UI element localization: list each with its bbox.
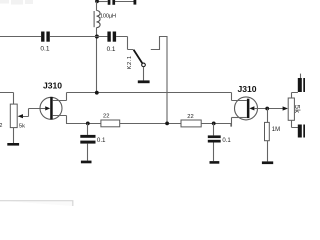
wire wiper to gate: [23, 109, 45, 117]
ground under switch: [138, 80, 150, 83]
svg-text:K2.1: K2.1: [127, 55, 133, 69]
capacitor C1 0.1: [41, 32, 50, 42]
wire left rail y36: [0, 36, 41, 38]
svg-text:2: 2: [0, 123, 3, 129]
capacitor top (cut off at edge): [108, 0, 115, 5]
capacitor right top (cut off): [298, 78, 305, 92]
svg-text:100µH: 100µH: [100, 13, 116, 19]
svg-text:0.1: 0.1: [107, 46, 116, 53]
potentiometer P2 5k body: [288, 98, 294, 120]
wire switch to ground: [143, 67, 145, 81]
resistor R3 1M: [267, 109, 269, 123]
svg-text:0.1: 0.1: [97, 137, 106, 144]
wire top rail left: [97, 1, 108, 3]
potentiometer P2 5k wiper arrow: [283, 106, 288, 110]
wire P2 bottom to cap: [292, 120, 298, 127]
potentiometer P1 5k body: [10, 104, 17, 128]
node drain rail / LC junction: [95, 91, 99, 95]
capacitor C2 0.1: [107, 32, 116, 42]
wire source rail segment 2: [120, 123, 181, 125]
wire from top rail down to inductor: [96, 2, 98, 11]
transistor Q2 J310: [232, 93, 258, 120]
wire C4 to ground: [213, 143, 215, 162]
switch K2.1 blade: [134, 50, 143, 64]
ground under C3: [81, 161, 92, 164]
svg-text:J310: J310: [43, 81, 62, 91]
wire C3 to ground: [87, 144, 89, 161]
wire switch fixed contact to source rail: [151, 37, 167, 124]
node gate / 1M: [265, 107, 269, 111]
node junction L / caps row: [95, 35, 99, 39]
node source rail / C3: [86, 122, 90, 126]
wire P2 top to cap: [292, 93, 298, 99]
wire stub above right cap: [300, 74, 302, 78]
svg-text:5k: 5k: [19, 123, 25, 129]
wire 1M to ground: [267, 141, 269, 162]
wire pot bottom to ground: [13, 128, 15, 143]
resistor R1 22: [101, 120, 120, 127]
wire top rail right: [115, 1, 134, 3]
ground under pot P1: [7, 143, 19, 146]
svg-text:J310: J310: [237, 84, 256, 94]
node top junction: [95, 0, 99, 3]
transistor Q1 J310: [40, 93, 67, 124]
capacitor C4 0.1 bypass: [213, 124, 215, 136]
switch K2.1 contact circle: [142, 63, 146, 67]
svg-text:0.1: 0.1: [40, 45, 49, 52]
svg-text:22: 22: [103, 114, 109, 120]
capacitor right bottom (cut off): [298, 125, 305, 138]
capacitor plate top-right (cut off): [134, 0, 137, 5]
inductor L1 100µH: [97, 11, 101, 28]
svg-text:1M: 1M: [272, 127, 280, 133]
ground under C4: [210, 161, 220, 164]
resistor R2 22: [181, 120, 201, 127]
potentiometer P1 wiper arrow: [18, 114, 23, 118]
status box bottom-left: [0, 201, 73, 206]
capacitor C3 0.1 bypass: [87, 124, 89, 135]
wire source rail segment 1: [66, 123, 101, 125]
svg-text:22: 22: [187, 114, 193, 120]
wire C1 to junction: [50, 36, 108, 38]
wire drain rail: [67, 92, 232, 94]
svg-text:0.1: 0.1: [222, 138, 231, 144]
wire source rail segment 3: [201, 118, 231, 127]
wire Q2 gate to pot: [254, 108, 283, 110]
wire inductor bottom down to drain rail: [96, 28, 98, 93]
node source rail / C4: [212, 122, 216, 126]
wire C2 to switch: [116, 37, 133, 50]
svg-text:5k: 5k: [293, 105, 302, 114]
wire pot feed from left edge: [0, 93, 14, 105]
node source rail / switch feed: [165, 122, 169, 126]
ground under 1M: [262, 161, 273, 164]
